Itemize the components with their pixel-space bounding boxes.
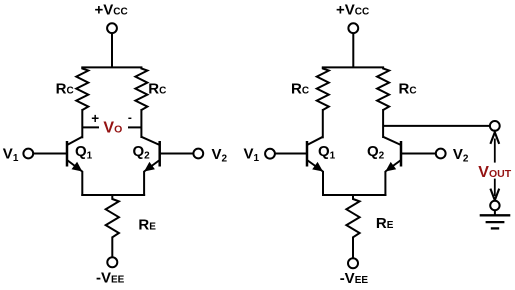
wire collector Q1 (left) bbox=[81, 109, 83, 138]
transistor Q1 (right) emitter lead bbox=[307, 160, 323, 172]
terminal V2 (left circuit) bbox=[193, 149, 203, 159]
ground symbol line 2 bbox=[486, 221, 505, 223]
transistor Q2 (left) emitter lead bbox=[144, 160, 160, 172]
svg-text:-: - bbox=[128, 111, 132, 125]
wire base Q2 (left) bbox=[160, 153, 194, 155]
wire base Q2 (right) bbox=[401, 153, 436, 155]
wire VCC to rail (left) bbox=[111, 33, 113, 67]
wire base Q1 (right) bbox=[275, 153, 307, 155]
resistor RC left (left circuit) bbox=[76, 67, 88, 110]
transistor Q1 (left) emitter lead bbox=[67, 160, 82, 172]
wire collector rail (right) bbox=[322, 66, 384, 68]
terminal +VCC (right circuit) bbox=[348, 23, 358, 33]
transistor Q1 (left) emitter arrow bbox=[72, 162, 83, 172]
wire RE to -VEE terminal (left) bbox=[111, 237, 113, 258]
transistor Q1 (right circuit) base bar bbox=[306, 141, 309, 167]
terminal ground circle bbox=[490, 201, 499, 210]
transistor Q1 (right) collector lead bbox=[307, 137, 323, 145]
wire ground stub bbox=[494, 210, 496, 215]
label VOUT background bbox=[477, 163, 513, 179]
wire emitter Q1 down (left) bbox=[81, 171, 83, 196]
wire collector Q2 (left) bbox=[140, 109, 142, 138]
resistor RC right (right circuit) bbox=[377, 67, 389, 110]
wire collector Q1 (right) bbox=[322, 109, 324, 138]
transistor Q2 (left) collector lead bbox=[141, 137, 159, 145]
wire VCC to rail (right) bbox=[352, 33, 354, 67]
wire emitter Q2 down (left) bbox=[143, 171, 145, 196]
arrowhead VOUT down bbox=[490, 189, 499, 201]
node VO+ stub (left) bbox=[82, 126, 99, 128]
wire emitter rail (left) bbox=[81, 194, 145, 196]
transistor Q1 (left circuit) base bar bbox=[66, 141, 69, 167]
wire emitter Q2 down (right) bbox=[384, 171, 386, 196]
wire VOUT arrow shaft bbox=[494, 139, 496, 197]
wire output tap from Q2 collector (right) bbox=[383, 125, 490, 127]
wire RE to -VEE terminal (right) bbox=[352, 237, 354, 259]
resistor RE (left circuit) bbox=[106, 195, 119, 237]
ground symbol line 1 bbox=[480, 214, 511, 216]
wire collector Q2 (right) bbox=[382, 109, 384, 138]
terminal +VCC (left circuit) bbox=[107, 23, 117, 33]
resistor RC right (left circuit) bbox=[135, 67, 147, 110]
node VO- stub (left) bbox=[128, 126, 141, 128]
ground symbol line 3 bbox=[491, 227, 499, 229]
resistor RC left (right circuit) bbox=[317, 67, 329, 110]
terminal -VEE (left circuit) bbox=[107, 257, 117, 267]
transistor Q1 (right) emitter arrow bbox=[312, 162, 323, 172]
terminal V1 (right circuit) bbox=[265, 149, 275, 159]
svg-text:+: + bbox=[91, 111, 99, 126]
terminal V1 (left circuit) bbox=[23, 149, 33, 159]
arrowhead VOUT up bbox=[490, 132, 499, 144]
transistor Q2 (left) emitter arrow bbox=[144, 162, 155, 172]
transistor Q2 (right) collector lead bbox=[383, 137, 401, 145]
wire emitter Q1 down (right) bbox=[322, 171, 324, 196]
wire collector rail (left) bbox=[81, 66, 142, 68]
terminal VOUT top bbox=[490, 121, 500, 131]
transistor Q2 (right circuit) base bar bbox=[400, 141, 403, 167]
transistor Q2 (left circuit) base bar bbox=[158, 141, 161, 167]
wire emitter rail (right) bbox=[322, 194, 386, 196]
wire base Q1 (left) bbox=[33, 153, 67, 155]
terminal V2 (right circuit) bbox=[436, 149, 446, 159]
transistor Q2 (right) emitter lead bbox=[385, 160, 401, 172]
transistor Q1 (left) collector lead bbox=[67, 137, 82, 145]
transistor Q2 (right) emitter arrow bbox=[385, 162, 396, 172]
terminal -VEE (right circuit) bbox=[348, 258, 358, 268]
resistor RE (right circuit) bbox=[346, 195, 359, 237]
